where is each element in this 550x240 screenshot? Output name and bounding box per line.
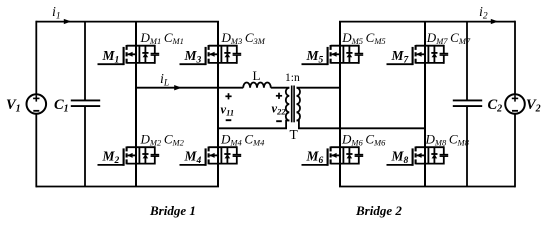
wire top bus bridge1 side [36,21,219,23]
snubber capacitor CM6 [355,146,364,164]
capacitor C2 [453,100,482,106]
svg-text:1:n: 1:n [285,72,300,84]
wire C1 stub upper [84,22,86,101]
label v11 [221,93,235,120]
snubber capacitor CM8 [440,146,449,164]
wire bridge1 output [136,87,243,89]
wire bridge1 leg A [135,22,137,187]
snubber capacitor C3M [233,45,242,64]
wire left rail lower [35,114,37,188]
mosfet M8 [387,147,444,166]
wire C2 stub upper [466,22,468,101]
wire top bus bridge2 side [339,21,515,23]
label v22 [272,93,287,122]
mosfet M6 [302,147,359,166]
mosfet M1 [98,45,155,65]
body diode D1 [139,46,148,63]
svg-text:L: L [253,68,261,83]
snubber capacitor CM7 [440,45,449,64]
inductor L [243,82,271,87]
wire C1 stub lower [84,106,86,186]
voltage source V2 [505,94,525,114]
wire primary return [218,121,289,129]
body diode D4 [221,147,230,163]
wire secondary top [297,87,341,89]
svg-text:T: T [290,127,299,142]
wire right rail upper [514,21,516,95]
mosfet M4 [180,147,237,166]
wire secondary return [297,121,426,129]
wire bottom bus bridge1 side [36,186,219,188]
svg-text:Bridge 2: Bridge 2 [355,203,402,218]
mosfet M5 [302,45,359,65]
svg-text:Bridge 1: Bridge 1 [149,203,196,218]
body diode D6 [343,147,352,163]
mosfet M7 [387,45,444,65]
wire left rail upper [35,21,37,95]
snubber capacitor CM1 [151,45,160,64]
wire bridge2 leg A [339,22,341,187]
current arrow iL [174,85,182,90]
capacitor C1 [71,100,100,106]
transformer primary winding [286,88,290,121]
snubber capacitor CM4 [233,146,242,164]
current arrow i1 [64,19,72,24]
wire bridge2 leg B [424,22,426,187]
wire inductor to transformer [271,87,290,89]
body diode D5 [343,46,352,63]
body diode D2 [139,147,148,163]
body diode D8 [428,147,437,163]
voltage source V1 [27,94,47,114]
wire bridge1 leg B [217,22,219,187]
mosfet M2 [98,147,155,166]
wire bottom bus bridge2 side [339,186,515,188]
transformer secondary winding [297,88,301,121]
body diode D3 [221,46,230,63]
wire right rail lower [514,114,516,188]
current arrow i2 [491,19,499,24]
body diode D7 [428,46,437,63]
wire C2 stub lower [466,106,468,186]
snubber capacitor CM5 [355,45,364,64]
mosfet M3 [180,45,237,65]
transformer core [291,86,293,123]
snubber capacitor CM2 [151,146,160,164]
